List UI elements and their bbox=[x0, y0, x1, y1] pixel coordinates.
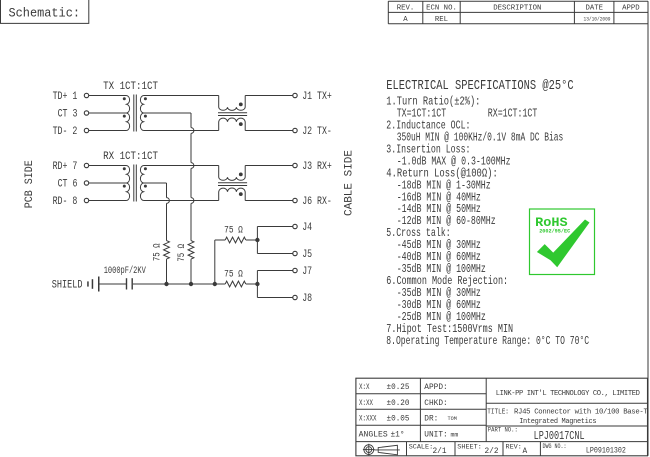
shield pin post bbox=[98, 277, 100, 292]
rev table header ECN NO. bbox=[426, 4, 457, 12]
wire CT line B mid1 bbox=[190, 133, 192, 162]
transformer T2 core bbox=[134, 165, 137, 202]
wire T2 primary bottom bbox=[89, 200, 127, 202]
hop over TX- wire bbox=[191, 128, 194, 134]
svg-text:TX 1CT:1CT: TX 1CT:1CT bbox=[103, 81, 158, 93]
label J1 TX+ bbox=[302, 91, 332, 103]
wire T1 primary CT bbox=[89, 112, 127, 114]
wire R2 to shield bus bbox=[190, 259, 192, 284]
T2 primary dot top bbox=[123, 167, 126, 170]
svg-text:LP09101302: LP09101302 bbox=[586, 448, 626, 456]
electrical specifications text block bbox=[386, 79, 589, 348]
pin J6 terminal bbox=[293, 198, 297, 202]
svg-text:±0.20: ±0.20 bbox=[387, 400, 410, 408]
svg-text:RD- 8: RD- 8 bbox=[53, 196, 78, 208]
rev table header REV. bbox=[397, 4, 415, 12]
label J6 RX- bbox=[302, 196, 332, 208]
rev table header DATE bbox=[585, 4, 603, 12]
svg-text:CT 6: CT 6 bbox=[58, 178, 78, 190]
wire T1 secondary bottom bbox=[143, 130, 218, 132]
svg-text:PART NO.:: PART NO.: bbox=[488, 427, 518, 434]
wire left stub R3 bbox=[215, 239, 225, 241]
transformer T1 core bbox=[134, 95, 137, 132]
wire L2 to J3 bbox=[245, 165, 293, 167]
wire T2 secondary top bbox=[143, 165, 218, 167]
svg-text:LPJ0017CNL: LPJ0017CNL bbox=[534, 429, 585, 443]
svg-text:X:X: X:X bbox=[359, 384, 370, 392]
tol ANGLES ±1° bbox=[359, 431, 405, 440]
choke L1 top winding bbox=[219, 96, 246, 111]
wire shield bus bbox=[133, 283, 225, 285]
wire T2 primary top bbox=[89, 165, 127, 167]
pin J1 terminal bbox=[293, 93, 297, 97]
choke L1 core bbox=[218, 113, 247, 116]
cell DR: TOM bbox=[424, 416, 457, 424]
label J2 TX- bbox=[302, 126, 332, 138]
choke L2 dot top bbox=[239, 173, 243, 177]
svg-text:CT 3: CT 3 bbox=[58, 108, 78, 120]
shield pin mark bbox=[87, 279, 93, 289]
title text Schematic: bbox=[9, 7, 81, 21]
label J4 bbox=[302, 222, 312, 234]
svg-text:CABLE SIDE: CABLE SIDE bbox=[344, 150, 356, 216]
T1 secondary dot bottom bbox=[144, 115, 147, 118]
title line 1 bbox=[514, 409, 648, 417]
pin 6 CT terminal bbox=[84, 181, 88, 185]
svg-text:J3 RX+: J3 RX+ bbox=[302, 161, 332, 173]
wire T2 primary CT bbox=[89, 182, 127, 184]
svg-text:J1 TX+: J1 TX+ bbox=[302, 91, 332, 103]
pin 3 CT terminal bbox=[84, 111, 88, 115]
svg-text:CHKD:: CHKD: bbox=[424, 400, 447, 408]
title box border bbox=[1, 0, 89, 23]
svg-text:TITLE:: TITLE: bbox=[487, 409, 509, 417]
title block grid bbox=[356, 378, 648, 456]
svg-text:TD+ 1: TD+ 1 bbox=[53, 91, 78, 103]
svg-text:DATE: DATE bbox=[585, 4, 603, 12]
transformer T1 secondary winding bbox=[140, 96, 143, 131]
label C1 1000pF/2KV bbox=[104, 265, 147, 277]
pin J5 terminal bbox=[293, 251, 297, 255]
tol X:X ±0.25 bbox=[359, 384, 410, 392]
label RD+ 7 bbox=[53, 161, 78, 173]
svg-text:APPD:: APPD: bbox=[424, 384, 447, 392]
cell PART NO.: bbox=[488, 427, 518, 434]
label RD- 8 bbox=[53, 196, 78, 208]
label R4 75 Ohm bbox=[224, 268, 243, 279]
RoHS logo subtext 2002/95/EC bbox=[539, 228, 571, 235]
svg-text:75 Ω: 75 Ω bbox=[176, 244, 187, 262]
cell SCALE: 2/1 bbox=[409, 443, 447, 456]
svg-text:RX=1CT:1CT: RX=1CT:1CT bbox=[488, 107, 538, 121]
svg-text:RX 1CT:1CT: RX 1CT:1CT bbox=[103, 151, 158, 163]
junction shield/R3 drop bbox=[213, 282, 217, 286]
wire L1 to J2 bbox=[245, 130, 293, 132]
cell APPD: bbox=[424, 384, 447, 392]
title line 2 bbox=[519, 418, 596, 426]
wire CT line B mid2 bbox=[190, 168, 192, 197]
svg-text:ELECTRICAL SPECFICATIONS @25°C: ELECTRICAL SPECFICATIONS @25°C bbox=[386, 79, 573, 94]
T1 secondary dot top bbox=[144, 97, 147, 100]
svg-text:J5: J5 bbox=[302, 249, 312, 261]
label J3 RX+ bbox=[302, 161, 332, 173]
svg-text:PCB SIDE: PCB SIDE bbox=[24, 160, 36, 208]
wire CT line A upper bbox=[166, 183, 168, 198]
junction R3/J4J5 node bbox=[255, 238, 259, 242]
resistor R4 body 75ohm bbox=[225, 281, 246, 287]
pin J3 terminal bbox=[293, 163, 297, 167]
label R1 75 Ohm bbox=[151, 243, 162, 261]
wire to J8 bbox=[257, 297, 292, 299]
pin 8 RD- terminal bbox=[84, 198, 88, 202]
svg-text:X:XX: X:XX bbox=[359, 400, 373, 408]
resistor R2 body 75ohm bbox=[188, 241, 194, 260]
part number LPJ0017CNL bbox=[534, 429, 585, 443]
cell REV: A bbox=[506, 443, 528, 456]
RoHS logo text bbox=[535, 216, 568, 230]
label PCB SIDE bbox=[24, 160, 36, 208]
hop over RX J6 wire bbox=[191, 198, 194, 204]
junction R4/J7J8 node bbox=[255, 282, 259, 286]
svg-text:DR:: DR: bbox=[424, 416, 438, 424]
tol X:XX ±0.20 bbox=[359, 400, 410, 408]
label R3 75 Ohm bbox=[224, 225, 243, 236]
svg-text:±0.05: ±0.05 bbox=[387, 416, 410, 424]
rev table value REL bbox=[435, 16, 448, 24]
svg-text:SCALE:: SCALE: bbox=[409, 443, 433, 451]
T1 primary dot top bbox=[123, 97, 126, 100]
svg-text:ANGLES: ANGLES bbox=[359, 432, 388, 440]
pin 2 TD- terminal bbox=[84, 128, 88, 132]
choke L2 dot bottom bbox=[239, 192, 243, 196]
wire L1 to J1 bbox=[245, 95, 293, 97]
choke L2 bottom winding bbox=[219, 188, 246, 201]
wire T1 primary bottom bbox=[89, 130, 127, 132]
transformer T1 primary winding bbox=[127, 96, 130, 131]
svg-text:13/10/2009: 13/10/2009 bbox=[584, 17, 611, 23]
wire R3 to J4/J5 node bbox=[246, 239, 258, 241]
svg-text:APPD: APPD bbox=[622, 4, 640, 12]
svg-text:mm: mm bbox=[451, 432, 459, 439]
label CT 6 bbox=[58, 178, 78, 190]
choke L1 bottom winding bbox=[219, 118, 246, 130]
svg-text:J6 RX-: J6 RX- bbox=[302, 196, 332, 208]
wire T1 secondary CT bbox=[143, 112, 191, 114]
svg-text:J2 TX-: J2 TX- bbox=[302, 126, 332, 138]
svg-text:Integrated Magnetics: Integrated Magnetics bbox=[519, 418, 596, 426]
wire T2 secondary bottom bbox=[143, 200, 218, 202]
svg-text:±1°: ±1° bbox=[391, 431, 405, 440]
svg-text:±0.25: ±0.25 bbox=[387, 384, 410, 392]
capacitor C1 bbox=[127, 278, 133, 289]
svg-text:75 Ω: 75 Ω bbox=[151, 243, 162, 261]
cell DWG NO.: LP09101302 bbox=[543, 443, 627, 456]
svg-text:DESCRIPTION: DESCRIPTION bbox=[493, 4, 541, 12]
resistor R3 body 75ohm bbox=[225, 237, 246, 243]
svg-text:REV.: REV. bbox=[397, 4, 415, 12]
wire to J4 bbox=[257, 226, 292, 228]
svg-text:J4: J4 bbox=[302, 222, 312, 234]
svg-text:SHIELD: SHIELD bbox=[52, 279, 83, 291]
svg-text:A: A bbox=[403, 16, 408, 24]
wire CT line A lower bbox=[166, 203, 168, 240]
T2 secondary dot top bbox=[144, 167, 147, 170]
svg-text:TOM: TOM bbox=[448, 416, 457, 422]
choke L2 core bbox=[218, 183, 247, 186]
wire to J5 bbox=[257, 253, 292, 255]
pin J2 terminal bbox=[293, 128, 297, 132]
rev table value 13/10/2009 bbox=[584, 17, 611, 23]
pin J7 terminal bbox=[293, 268, 297, 272]
company name bbox=[496, 390, 640, 398]
svg-text:RD+ 7: RD+ 7 bbox=[53, 161, 78, 173]
projection symbol cone bbox=[374, 445, 400, 455]
label TD- 2 bbox=[53, 126, 78, 138]
svg-text:1000pF/2KV: 1000pF/2KV bbox=[104, 265, 147, 277]
svg-text:J8: J8 bbox=[302, 293, 312, 305]
svg-text:TD- 2: TD- 2 bbox=[53, 126, 78, 138]
label J8 bbox=[302, 293, 312, 305]
cell CHKD: bbox=[424, 400, 447, 408]
pin 1 TD+ terminal bbox=[84, 93, 88, 97]
label J5 bbox=[302, 249, 312, 261]
svg-text:REV:: REV: bbox=[506, 443, 522, 451]
rev table header DESCRIPTION bbox=[493, 4, 541, 12]
svg-text:REL: REL bbox=[435, 16, 448, 24]
pin J4 terminal bbox=[293, 224, 297, 228]
T2 primary dot bottom bbox=[123, 185, 126, 188]
wire J4/J5 vertical bbox=[256, 227, 258, 254]
wire T1 secondary top bbox=[143, 95, 218, 97]
pin 7 RD+ terminal bbox=[84, 163, 88, 167]
label TX 1CT:1CT bbox=[103, 81, 158, 93]
rev table value A bbox=[403, 16, 408, 24]
wire L2 to J6 bbox=[245, 200, 293, 202]
wire R3 drop to shield bus bbox=[214, 240, 216, 284]
wire CT line B lower bbox=[190, 203, 192, 240]
first-angle projection symbol circle bbox=[363, 444, 375, 456]
choke L1 dot top bbox=[239, 103, 243, 107]
wire T1 primary top bbox=[89, 95, 127, 97]
wire R4 to J7/J8 node bbox=[246, 283, 258, 285]
tol X:XXX ±0.05 bbox=[359, 416, 410, 424]
svg-text:2/1: 2/1 bbox=[433, 448, 447, 456]
svg-text:X:XXX: X:XXX bbox=[359, 416, 377, 424]
transformer T2 primary winding bbox=[127, 166, 130, 201]
wire to J7 bbox=[257, 270, 292, 272]
svg-text:LINK-PP INT'L TECHNOLOGY CO.,: LINK-PP INT'L TECHNOLOGY CO., LIMITED bbox=[496, 390, 640, 398]
svg-text:Schematic:: Schematic: bbox=[9, 7, 81, 21]
svg-text:8.Operating Temperature Range:: 8.Operating Temperature Range: 0°C TO 70… bbox=[386, 334, 589, 348]
wire T2 secondary CT bbox=[143, 182, 166, 184]
transformer T2 secondary winding bbox=[140, 166, 143, 201]
wire R1 to shield bus bbox=[166, 259, 168, 284]
svg-text:RJ45 Connector with 10/100 Bas: RJ45 Connector with 10/100 Base-T bbox=[514, 409, 648, 417]
choke L2 top winding bbox=[219, 166, 246, 181]
rev table header APPD bbox=[622, 4, 640, 12]
wire CT line B upper bbox=[190, 113, 192, 128]
label SHIELD bbox=[52, 279, 83, 291]
svg-text:75 Ω: 75 Ω bbox=[224, 225, 243, 236]
T1 primary dot bottom bbox=[123, 115, 126, 118]
svg-text:2/2: 2/2 bbox=[485, 448, 499, 456]
svg-text:DWG NO.:: DWG NO.: bbox=[543, 443, 567, 450]
RoHS logo border bbox=[530, 209, 595, 275]
svg-text:UNIT:: UNIT: bbox=[424, 432, 447, 440]
svg-text:SHEET:: SHEET: bbox=[457, 443, 481, 451]
junction shield/R2 bbox=[189, 282, 193, 286]
wire J7/J8 vertical bbox=[256, 271, 258, 298]
choke L1 dot bottom bbox=[239, 122, 243, 126]
svg-text:ECN NO.: ECN NO. bbox=[426, 4, 457, 12]
RoHS checkmark bbox=[537, 220, 590, 268]
label R2 75 Ohm bbox=[176, 244, 187, 262]
label TD+ 1 bbox=[53, 91, 78, 103]
svg-text:2002/95/EC: 2002/95/EC bbox=[539, 228, 571, 235]
hop over RX J6 wire 2 bbox=[167, 198, 170, 204]
cell SHEET: 2/2 bbox=[457, 443, 499, 456]
label J7 bbox=[302, 266, 312, 278]
resistor R1 body 75ohm bbox=[164, 241, 170, 260]
label CT 3 bbox=[58, 108, 78, 120]
cell TITLE: bbox=[487, 409, 509, 417]
hop over RX J3 wire bbox=[191, 163, 194, 169]
pin J8 terminal bbox=[293, 295, 297, 299]
frame right border bbox=[647, 1, 649, 456]
T2 secondary dot bottom bbox=[144, 185, 147, 188]
wire shield to C1 bbox=[100, 283, 127, 285]
svg-text:75 Ω: 75 Ω bbox=[224, 268, 243, 279]
label RX 1CT:1CT bbox=[103, 151, 158, 163]
cell UNIT: mm bbox=[424, 432, 458, 440]
label CABLE SIDE bbox=[344, 150, 356, 216]
svg-text:A: A bbox=[523, 448, 528, 456]
revision table grid bbox=[388, 1, 648, 24]
junction shield/R1 bbox=[164, 282, 168, 286]
svg-text:J7: J7 bbox=[302, 266, 312, 278]
